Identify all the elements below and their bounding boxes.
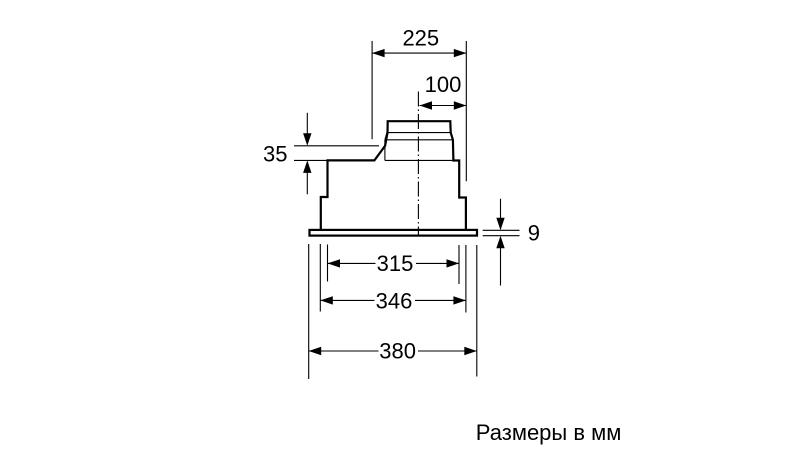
dim 380 arrow right [464, 347, 477, 355]
centerline [417, 92, 419, 237]
svg-text:225: 225 [402, 26, 439, 51]
dim 225 extension line left [371, 41, 373, 139]
svg-text:315: 315 [377, 251, 414, 276]
dim 380 arrow left [309, 347, 322, 355]
svg-text:380: 380 [379, 338, 416, 363]
duct crimp line 1 [388, 132, 451, 134]
dim 100 line [420, 105, 467, 107]
dim 315 arrow right [447, 259, 460, 267]
ext line C body upper left [327, 245, 329, 282]
dim 35 upper reference line [294, 145, 379, 147]
dim 9 lower line [483, 235, 520, 237]
dim 225/100 extension line right [465, 41, 467, 181]
dim 315 line [328, 262, 376, 264]
svg-text:9: 9 [528, 220, 540, 245]
dim 9 arrow down [500, 199, 502, 219]
dim 225 arrow left [372, 49, 385, 57]
dim 315 arrow left [328, 259, 341, 267]
dim 225 line [372, 52, 466, 54]
dim 9 upper line [483, 229, 520, 231]
dim 346 line [320, 299, 374, 301]
ext line F flange right [476, 245, 478, 377]
dim 35 arrow down [306, 113, 308, 135]
svg-text:346: 346 [376, 288, 413, 313]
svg-text:35: 35 [263, 141, 287, 166]
hood body outline [321, 121, 466, 230]
dim 346 arrow left [320, 296, 333, 304]
dim 380 line [309, 350, 379, 352]
duct crimp left slant [385, 133, 387, 140]
duct crimp line 2 [385, 139, 453, 141]
ext line B body lower left [319, 244, 321, 312]
dim 35 lower reference line [294, 159, 328, 161]
dim 35 arrow up [306, 172, 308, 194]
hidden top edge under duct [385, 159, 454, 161]
dim 100 arrow right [454, 101, 467, 109]
duct hidden left wall [384, 140, 386, 161]
svg-text:100: 100 [425, 72, 462, 97]
ext line A flange left [308, 244, 310, 379]
ext line E body lower right [465, 245, 467, 313]
svg-text:Размеры в мм: Размеры в мм [476, 420, 622, 445]
dim 225 arrow right [454, 49, 467, 57]
dim 9 arrow up [500, 248, 502, 286]
ext line D body upper right [458, 245, 460, 284]
bottom flange [310, 230, 478, 236]
dim 100 arrow left [420, 101, 433, 109]
dim 346 arrow right [453, 296, 466, 304]
